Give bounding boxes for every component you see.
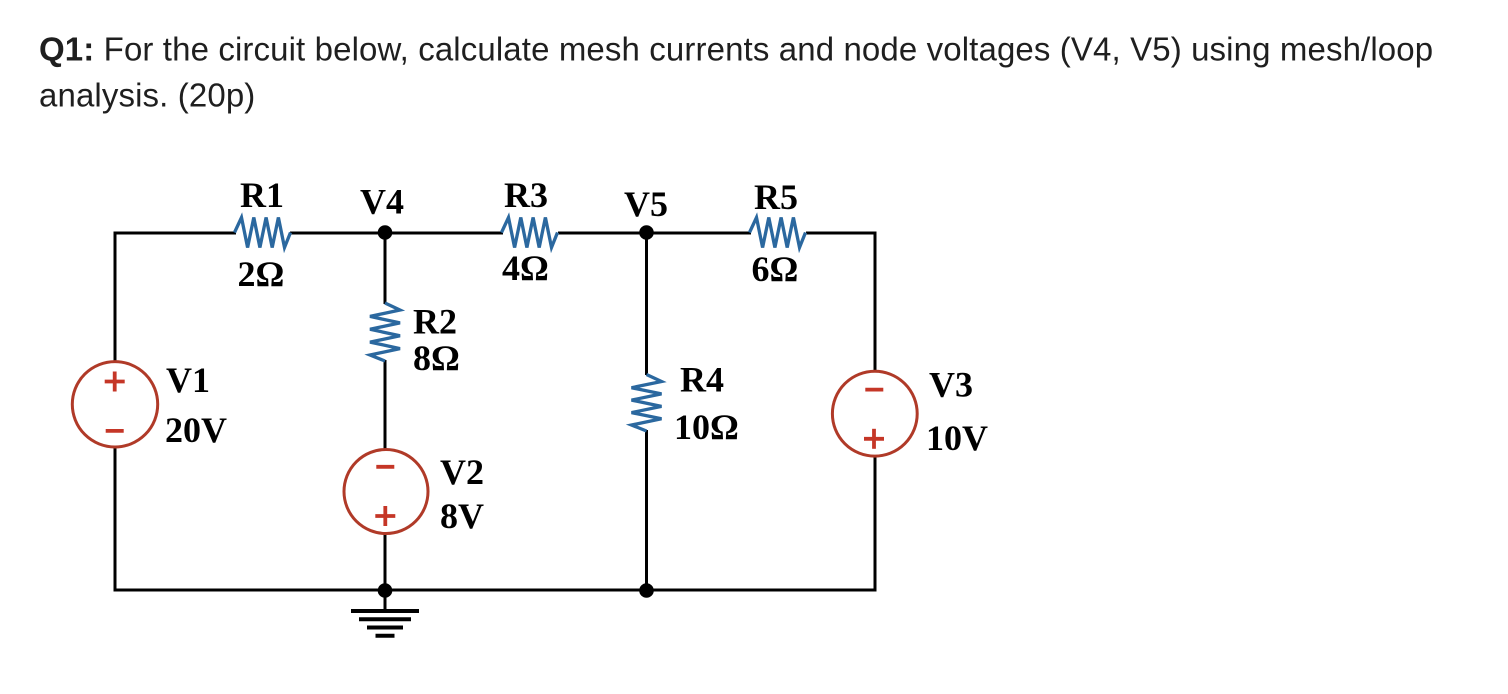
svg-text:R5: R5 bbox=[754, 177, 798, 217]
voltage source V3 minus bbox=[865, 388, 883, 392]
wire right branch upper bbox=[874, 232, 877, 373]
voltage source V1 plus bbox=[105, 372, 125, 392]
resistor R5 bbox=[750, 218, 806, 248]
bottom node under R4 (junction dot) bbox=[639, 583, 654, 598]
svg-text:10Ω: 10Ω bbox=[674, 407, 739, 447]
wire top-right segment bbox=[806, 232, 877, 235]
wire bottom bbox=[114, 589, 877, 592]
svg-text:V3: V3 bbox=[929, 365, 973, 405]
voltage source V1 minus bbox=[106, 429, 124, 433]
svg-text:V1: V1 bbox=[166, 360, 210, 400]
svg-text:R1: R1 bbox=[240, 175, 284, 215]
wire left branch upper bbox=[114, 232, 117, 363]
wire top-left segment bbox=[115, 232, 236, 235]
wire left branch lower bbox=[114, 447, 117, 592]
wire V2 to bottom node bbox=[384, 533, 387, 591]
svg-text:Q1: For the circuit below, cal: Q1: For the circuit below, calculate mes… bbox=[39, 31, 1433, 68]
svg-text:6Ω: 6Ω bbox=[752, 249, 799, 289]
bottom node under V2 (junction dot) bbox=[378, 583, 393, 598]
svg-text:2Ω: 2Ω bbox=[238, 254, 285, 294]
resistor R1 bbox=[235, 218, 291, 248]
svg-text:R3: R3 bbox=[504, 175, 548, 215]
ground bbox=[351, 611, 419, 636]
voltage source V2 plus bbox=[375, 506, 395, 526]
svg-text:10V: 10V bbox=[926, 418, 988, 458]
resistor R3 bbox=[502, 218, 558, 248]
voltage source V1 circle bbox=[72, 362, 157, 447]
voltage source V3 plus bbox=[864, 429, 884, 449]
wire top between R3 and R5 bbox=[558, 232, 751, 235]
wire R4 to bottom node bbox=[645, 430, 648, 591]
voltage source V2 circle bbox=[344, 450, 428, 534]
svg-text:4Ω: 4Ω bbox=[502, 248, 549, 288]
voltage source V3 circle bbox=[832, 371, 917, 456]
wire R2 to V2 bbox=[384, 360, 387, 450]
wire right branch lower bbox=[874, 456, 877, 592]
svg-text:V4: V4 bbox=[360, 182, 404, 222]
svg-text:V2: V2 bbox=[440, 452, 484, 492]
svg-text:R2: R2 bbox=[413, 302, 457, 342]
svg-text:8V: 8V bbox=[440, 496, 484, 536]
node V5 bbox=[639, 225, 654, 240]
svg-text:8Ω: 8Ω bbox=[413, 338, 460, 378]
svg-text:V5: V5 bbox=[624, 184, 668, 224]
svg-text:analysis. (20p): analysis. (20p) bbox=[39, 77, 255, 114]
ground stub wire bbox=[384, 591, 387, 612]
resistor R2 bbox=[370, 303, 400, 361]
svg-text:R4: R4 bbox=[680, 360, 724, 400]
node V4 bbox=[378, 225, 393, 240]
wire V5 to R4 bbox=[645, 233, 648, 375]
voltage source V2 minus bbox=[376, 465, 394, 469]
wire top between R1 and R3 bbox=[290, 232, 503, 235]
wire V4 to R2 bbox=[384, 233, 387, 304]
svg-text:20V: 20V bbox=[165, 410, 227, 450]
resistor R4 bbox=[632, 375, 662, 432]
